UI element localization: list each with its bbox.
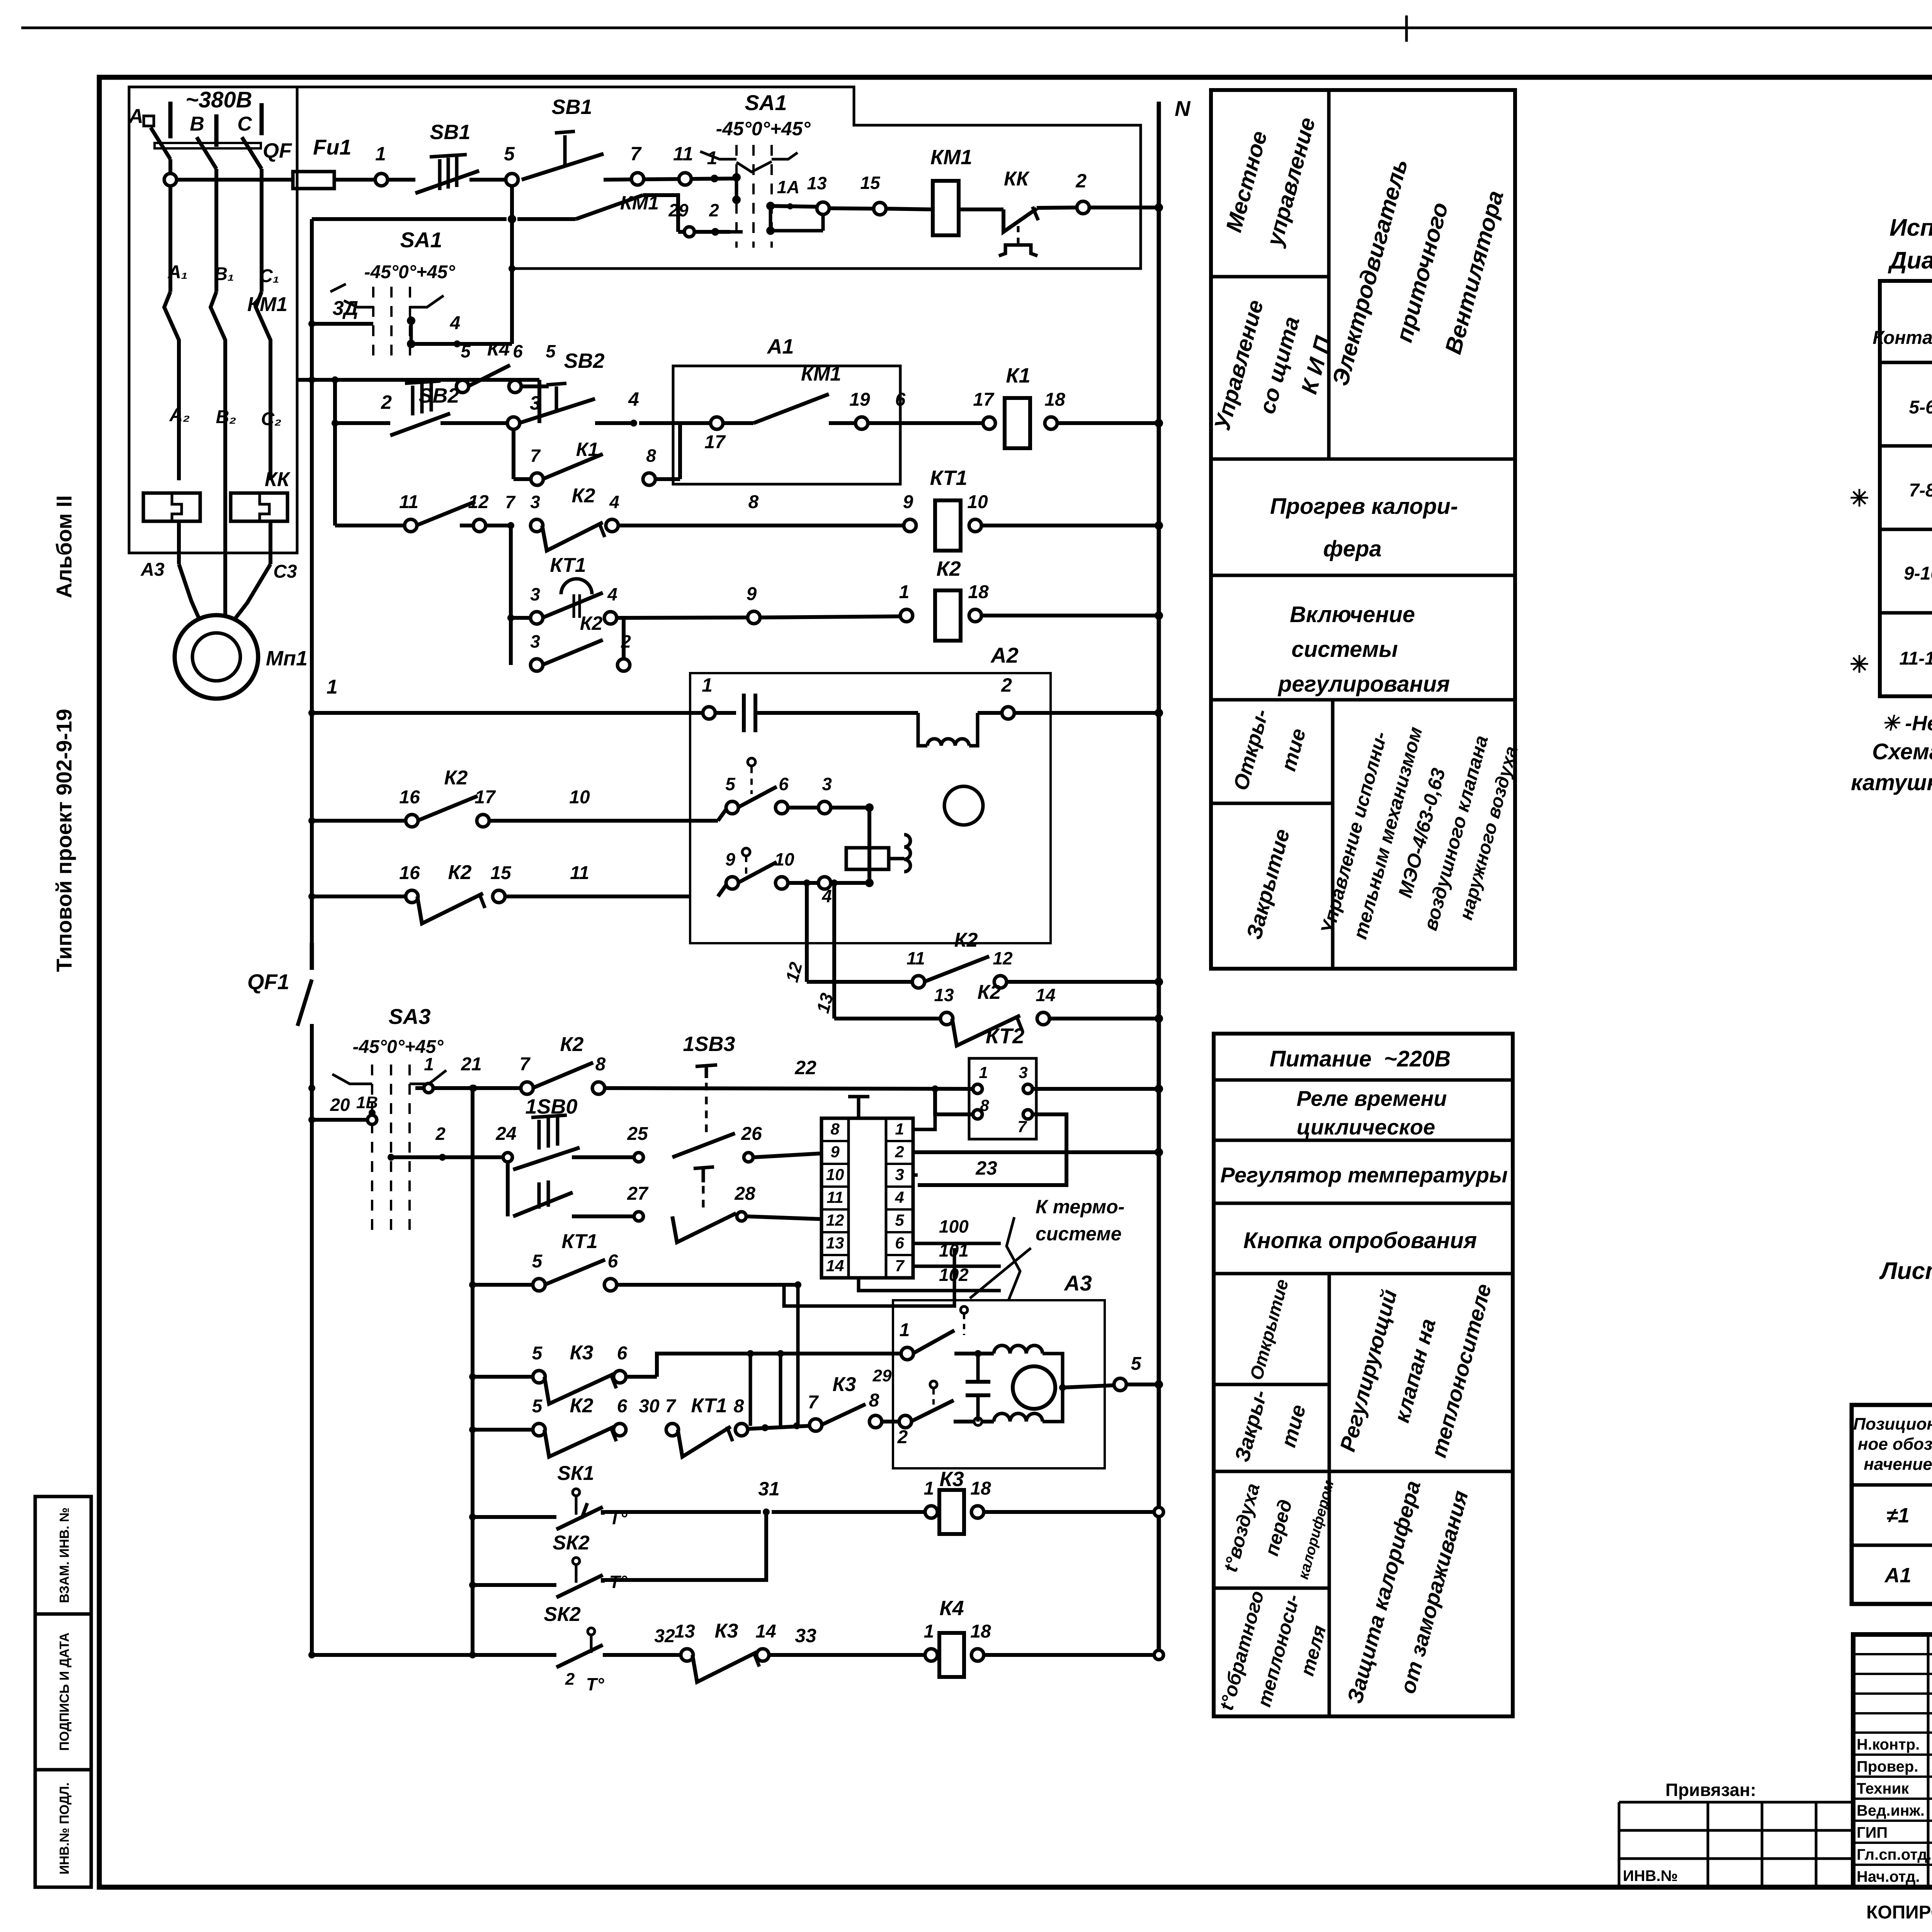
node 26 rungB2 (744, 1153, 753, 1162)
pushbutton SB2 break cap (405, 381, 440, 383)
control box A1 boundary (297, 87, 1141, 269)
terminal block body (821, 1118, 913, 1278)
svg-text:6: 6 (617, 1343, 628, 1364)
svg-text:К1: К1 (576, 439, 599, 460)
limit switch A3 arm1 (913, 1330, 954, 1354)
svg-text:4: 4 (607, 584, 617, 604)
wire rung6 to N (1014, 711, 1159, 715)
svg-text:22: 22 (794, 1057, 816, 1078)
svg-text:1: 1 (899, 582, 910, 602)
wire rung8 into A2 (504, 896, 718, 897)
wire rung8 b (504, 895, 690, 898)
svg-text:24: 24 (495, 1124, 516, 1144)
selector SA1 left dashed 1 (372, 287, 374, 357)
pushbutton SB2 break plunger (411, 386, 415, 415)
junction KT2 branch (932, 1085, 939, 1092)
relay coil K2 (935, 590, 961, 641)
pushbutton 1SB3 T (696, 1065, 717, 1066)
wire rungSK1 b (603, 1512, 761, 1515)
node 7 K1 (531, 473, 543, 485)
limit switch A3 circle2 (930, 1381, 937, 1388)
contact KT1 rungB5 tick (727, 1427, 733, 1441)
breaker QF1 arm (298, 980, 312, 1026)
svg-text:5: 5 (461, 341, 471, 361)
junction railB SK1 (469, 1514, 476, 1520)
svg-text:К2: К2 (936, 557, 961, 580)
svg-text:SА1: SА1 (745, 90, 787, 115)
selector SA3 dashed 3 (408, 1065, 411, 1233)
wire rungB5 step (766, 1427, 767, 1428)
wire node7 drop (517, 217, 576, 221)
svg-text:С: С (237, 113, 252, 135)
function divider col2 (1331, 700, 1335, 969)
terminal block T symbol (848, 1095, 869, 1099)
svg-text:QF1: QF1 (247, 969, 289, 994)
svg-text:SК2: SК2 (553, 1532, 590, 1554)
wire rung4 drop (509, 526, 513, 627)
svg-text:ное обоз-: ное обоз- (1858, 1435, 1932, 1454)
node 21 rungB1 (470, 1085, 477, 1092)
contact K3 13-14 break (692, 1652, 757, 1682)
relay coil K4 (939, 1633, 964, 1677)
svg-text:14: 14 (1036, 985, 1055, 1005)
junction rail 20 (308, 1116, 315, 1123)
wire aux to node29 (678, 230, 684, 234)
node 8 A3row (869, 1415, 882, 1428)
wire rung5b riser (622, 618, 626, 660)
svg-text:КМ1: КМ1 (247, 293, 287, 316)
node 24 rungB2 (503, 1153, 512, 1162)
svg-text:32: 32 (654, 1626, 675, 1646)
svg-text:33: 33 (795, 1625, 816, 1646)
pushbutton SB1 break lead (387, 178, 415, 182)
wire K4 right (520, 384, 539, 388)
node 7 row1 (631, 173, 644, 185)
dashed unit 1 boundary box (129, 87, 297, 553)
wire rung9 to N (1006, 980, 1159, 984)
wire rungB2 b (572, 1155, 633, 1159)
svg-text:1А: 1А (777, 177, 800, 197)
sheet top trim line (21, 27, 1932, 29)
pushbutton 1SB3 plunger (705, 1078, 708, 1132)
node 1 A3 (901, 1347, 913, 1360)
function divider col (1327, 90, 1331, 459)
svg-text:3: 3 (530, 631, 540, 651)
wire rung10 to N (1049, 1017, 1159, 1020)
KT2 pin7 circle (1023, 1110, 1032, 1119)
svg-text:20: 20 (330, 1095, 350, 1115)
pushbutton SB2 make arm (519, 399, 595, 423)
motor feeder B3 (223, 340, 227, 618)
contact K2 rungB5 break (544, 1427, 614, 1457)
svg-text:15: 15 (490, 863, 512, 883)
node 7 rung4 (507, 522, 514, 529)
node 2 rung5b (617, 659, 630, 671)
svg-text:1: 1 (979, 1063, 988, 1082)
svg-text:12: 12 (826, 1211, 844, 1229)
svg-text:системе: системе (1036, 1223, 1122, 1245)
svg-text:КТ2: КТ2 (986, 1024, 1024, 1048)
node 16 rung8 (406, 890, 418, 903)
wire rung4 to N (981, 524, 1159, 527)
wire SA1 left out (411, 342, 512, 346)
node 1 K4coil (925, 1649, 937, 1661)
svg-text:Регулятор температуры: Регулятор температуры (1220, 1163, 1508, 1187)
left stamp divider 2 (35, 1768, 91, 1772)
svg-text:Привязан:: Привязан: (1665, 1780, 1756, 1800)
bus tick phase B (214, 114, 219, 147)
svg-text:9: 9 (830, 1143, 840, 1161)
svg-text:1: 1 (924, 1478, 934, 1499)
junction railB top (469, 1085, 476, 1092)
svg-text:11: 11 (399, 492, 418, 512)
wire rung KM1 coil (769, 206, 772, 231)
breaker QF arm B (197, 137, 216, 169)
svg-text:2: 2 (1001, 674, 1012, 696)
junction N KT2 (1155, 1085, 1163, 1093)
thermal relay KK box (0, 0, 0, 0)
svg-text:1: 1 (375, 143, 386, 165)
svg-text:1: 1 (895, 1120, 904, 1138)
wire aux to SA1 bottom (509, 265, 515, 272)
actuator A2 box (690, 673, 1051, 943)
svg-text:К2: К2 (560, 1033, 584, 1056)
node 6 A2 (776, 801, 788, 814)
svg-text:А₁: А₁ (167, 262, 188, 282)
contact K3 5-6 tick (611, 1374, 616, 1388)
junction N rung4 (1155, 521, 1163, 530)
pushbutton SB2 make plunger (555, 386, 558, 413)
svg-text:6: 6 (513, 341, 523, 361)
left control rail net1 (310, 219, 314, 970)
function bottom row3 (1214, 1202, 1513, 1205)
selector SA1 left contact left (344, 301, 373, 307)
wire rung5 drop (509, 618, 513, 665)
node 1 A2 (703, 707, 715, 719)
node 15 (874, 202, 886, 215)
node 11 row1 (679, 173, 691, 185)
node 8 rungB5 (735, 1423, 748, 1436)
delay arc KT1 3-4 (561, 579, 592, 594)
node 18 K3coil (971, 1506, 984, 1518)
svg-text:19: 19 (849, 389, 870, 410)
svg-text:8: 8 (595, 1054, 606, 1075)
node 7 rungB5 (666, 1423, 679, 1436)
svg-text:✳ -Не используются: ✳ -Не используются (1882, 712, 1932, 735)
wire rung3 e (867, 421, 989, 425)
wire rung5 to N (981, 614, 1159, 617)
svg-text:5: 5 (725, 774, 736, 794)
wire rungB1 a (415, 1086, 522, 1090)
node 3 rung4 (531, 519, 543, 532)
svg-text:8: 8 (980, 1096, 989, 1114)
thermal contact SK2 arm (556, 1575, 603, 1597)
svg-text:регулирования: регулирования (1277, 672, 1450, 697)
pushbutton SB1 plunger bars (438, 159, 442, 190)
svg-text:ВЗАМ. ИНВ. №: ВЗАМ. ИНВ. № (57, 1507, 72, 1603)
node 25 rungB2 (634, 1153, 643, 1162)
contact diagram header row line (1880, 361, 1932, 364)
KT2 pin1 circle (973, 1084, 982, 1094)
svg-text:6: 6 (895, 1234, 904, 1252)
svg-text:2: 2 (1075, 170, 1087, 192)
node 18 rung5 (969, 609, 981, 622)
terminal block bracket (784, 1248, 954, 1306)
wire node2 to N (1088, 206, 1159, 209)
svg-text:SВ1: SВ1 (430, 121, 470, 144)
left stamp column box (35, 1497, 91, 1887)
node 1A (828, 208, 874, 209)
pushbutton 1SB3 break arm (672, 1213, 736, 1242)
svg-text:Прогрев калори-: Прогрев калори- (1270, 494, 1458, 519)
node 3 A2 (818, 801, 831, 814)
pushbutton 1SB3 break plunger (702, 1171, 705, 1207)
wire A2 relay to coil (889, 857, 904, 861)
wire A2 relay drop (867, 808, 871, 883)
wire block pin2 to N (913, 1150, 1159, 1154)
svg-text:100: 100 (939, 1216, 969, 1236)
svg-text:SА3: SА3 (389, 1004, 431, 1029)
svg-text:7: 7 (665, 1396, 677, 1417)
selector SA3 contact left (332, 1074, 372, 1084)
wire A3 motor right (1043, 1354, 1063, 1422)
wire A2 6-3 (787, 806, 819, 810)
svg-text:26: 26 (741, 1124, 762, 1144)
svg-text:Типовой проект 902-9-19: Типовой проект 902-9-19 (52, 709, 76, 972)
svg-text:25: 25 (627, 1124, 648, 1144)
title block name rows (1853, 1731, 1932, 1734)
svg-text:Н.контр.: Н.контр. (1857, 1736, 1920, 1753)
selector SA1 left dashed 2 (390, 287, 393, 357)
contactor KM1 selfhold contact (753, 394, 829, 423)
svg-text:29: 29 (872, 1366, 892, 1385)
svg-text:ИНВ.№: ИНВ.№ (1623, 1867, 1678, 1884)
node 31 (763, 1509, 770, 1515)
wire KK pole A down (177, 521, 181, 564)
svg-text:✳: ✳ (1850, 651, 1869, 677)
svg-text:31: 31 (758, 1478, 780, 1500)
selector SA1 left wire box left (297, 378, 539, 382)
junction rail rung7 (308, 817, 315, 824)
node 28 (737, 1212, 746, 1221)
wire A3 out 5 (1063, 1385, 1115, 1388)
svg-text:КОПИРОВАЛ: ЛОГИНОВА: КОПИРОВАЛ: ЛОГИНОВА (1866, 1902, 1932, 1923)
svg-text:А3: А3 (1063, 1271, 1092, 1295)
wire rung6 c (978, 711, 1003, 715)
node 17 rung3 (711, 417, 723, 429)
capacitor C A2 lead (714, 711, 736, 715)
motor A3 inductor bottom (994, 1413, 1043, 1422)
contact K2 3-4 tick (599, 522, 605, 537)
wire rungK4 a (312, 1653, 556, 1657)
phase A drop to KM1 (168, 185, 172, 292)
node 5 row1 (506, 173, 518, 186)
node 19 rung3 (855, 417, 868, 429)
svg-text:SК2: SК2 (544, 1603, 581, 1626)
node 1 K3coil (925, 1506, 937, 1518)
contact K2 3-4 break (542, 522, 603, 551)
thermo arrow line (970, 1248, 1031, 1298)
svg-text:3: 3 (530, 584, 540, 604)
thermal contact SK2 tick (575, 1565, 578, 1583)
wire KK to node 2 (1037, 207, 1078, 208)
node 4 rung3 (630, 420, 637, 427)
svg-text:4: 4 (609, 492, 619, 512)
svg-text:К3: К3 (570, 1342, 594, 1364)
svg-text:К2: К2 (570, 1395, 594, 1417)
delay bars KT1 (573, 594, 575, 618)
wire KT2 8 branch (935, 1089, 973, 1114)
svg-text:Т°: Т° (586, 1674, 604, 1694)
svg-text:12: 12 (468, 492, 489, 512)
svg-text:1В: 1В (356, 1093, 378, 1112)
svg-text:К2: К2 (954, 929, 978, 951)
selector SA1 junction dot upper (732, 173, 741, 182)
svg-text:10: 10 (774, 849, 794, 869)
svg-text:16: 16 (399, 863, 420, 883)
node 7 A3row (810, 1419, 822, 1431)
svg-text:3: 3 (822, 774, 832, 794)
svg-text:4: 4 (450, 313, 461, 333)
wire rung3 c (595, 421, 634, 425)
function table bottom group box (1214, 1034, 1513, 1716)
svg-text:5-6: 5-6 (1909, 397, 1932, 418)
breaker QF arm A (151, 128, 170, 159)
node 5 K4 (456, 380, 469, 393)
thermal contact SK2b tick (590, 1635, 593, 1653)
svg-text:6: 6 (779, 774, 789, 794)
function bottom row2 (1214, 1139, 1513, 1142)
svg-text:КТ1: КТ1 (930, 466, 968, 490)
svg-text:1SВ3: 1SВ3 (683, 1032, 735, 1056)
wire block pin1 up (913, 1109, 935, 1129)
node 1 rungB1 (424, 1083, 433, 1093)
svg-text:14: 14 (755, 1621, 776, 1642)
contact K2 13-14 break (952, 1015, 1020, 1046)
svg-text:фера: фера (1323, 536, 1381, 561)
privyazan table rows (1619, 1801, 1853, 1804)
capacitor C A2 plates (742, 694, 746, 732)
svg-text:9: 9 (725, 849, 735, 869)
svg-text:В: В (190, 113, 204, 135)
wire A3 inner bottom (954, 1420, 994, 1423)
wire rungB3 b (616, 1283, 798, 1287)
svg-text:~380В: ~380В (185, 87, 252, 112)
svg-text:28: 28 (734, 1184, 755, 1204)
node 2 A2 (1002, 707, 1014, 719)
svg-text:3: 3 (1019, 1063, 1027, 1082)
wire K1 selfhold riser (678, 429, 682, 479)
wire K3coil to N (983, 1510, 1159, 1514)
wire rung7 b (488, 819, 718, 823)
svg-text:SВ2: SВ2 (418, 384, 459, 407)
wire K1 selfhold b (603, 479, 644, 480)
junction railB rungB3 (469, 1281, 476, 1288)
pushbutton SB1 plunger cap (430, 155, 467, 157)
svg-text:2: 2 (381, 391, 392, 413)
wire x2110 riser (766, 1427, 767, 1428)
svg-text:9: 9 (903, 492, 913, 512)
node 8 rungB1 (592, 1082, 605, 1094)
node 2 rungB2 (439, 1154, 446, 1161)
svg-text:17: 17 (704, 432, 726, 452)
wire rung3 start (335, 421, 390, 425)
wire thermo 102 (885, 1289, 1001, 1293)
node 6 K4 (509, 380, 521, 393)
svg-text:5: 5 (546, 341, 556, 361)
svg-text:7: 7 (520, 1054, 531, 1075)
node 13 rung10 (940, 1012, 953, 1025)
svg-text:Контакты: Контакты (1872, 328, 1932, 348)
contact K2 11-12 (924, 956, 989, 982)
wire rungB4 a (473, 1375, 534, 1379)
contact K1 11-12 (416, 502, 475, 526)
node 10 rung4 (969, 519, 981, 532)
svg-text:С₁: С₁ (259, 266, 279, 286)
wire rung5 b (624, 617, 748, 618)
wire K4coil to N (983, 1653, 1159, 1657)
contactor coil KM1 (933, 181, 959, 235)
svg-text:7: 7 (505, 492, 516, 512)
pushbutton SB1 make arm (522, 154, 604, 180)
svg-text:11: 11 (570, 863, 589, 883)
svg-text:8: 8 (734, 1396, 744, 1417)
node 1 rung5 (900, 609, 913, 622)
svg-text:КК: КК (1004, 168, 1030, 190)
wire rungK4 c (768, 1653, 926, 1657)
svg-text:16: 16 (399, 787, 420, 808)
bus tick phase A (168, 102, 173, 138)
limit switch A2 9-10 link (745, 856, 747, 877)
wire node3 drop (512, 429, 515, 479)
svg-text:N: N (1175, 96, 1191, 121)
node 16 rung7 (406, 815, 418, 827)
svg-text:А1: А1 (1884, 1564, 1911, 1587)
selector SA1 left contact right (410, 296, 444, 307)
svg-text:3: 3 (530, 492, 540, 512)
selector SA1 top dashed line 3 (770, 145, 773, 248)
svg-text:SА1: SА1 (400, 228, 442, 252)
svg-text:Схема выводов контактов и: Схема выводов контактов и (1872, 739, 1932, 764)
terminal block right cells (886, 1118, 913, 1278)
thermal element KK notch A (172, 493, 182, 521)
neutral rail N (1157, 102, 1161, 1655)
svg-text:5: 5 (532, 1396, 543, 1417)
wire rung5 a (616, 616, 624, 620)
fold mark tick top center (1405, 15, 1408, 42)
wire rungB4 b (625, 1375, 657, 1379)
svg-text:27: 27 (627, 1184, 649, 1204)
relay coil K3 (939, 1490, 964, 1534)
wire rail row1 segment b (334, 178, 415, 182)
thermal contact SK1 arm (556, 1507, 603, 1529)
SK2 stem circle (573, 1558, 580, 1565)
function bottom row5L (1214, 1383, 1329, 1386)
wire rungB5 b (747, 1426, 810, 1429)
limit switch A2 5-6 link (750, 767, 753, 794)
svg-text:≠1: ≠1 (1886, 1504, 1910, 1527)
motor A3 circle (1013, 1366, 1055, 1409)
node 2 A3 (899, 1415, 912, 1428)
wire KT2 3 to N (1032, 1087, 1159, 1091)
svg-text:К4: К4 (487, 338, 510, 360)
node 5 A2 (726, 801, 738, 814)
contact K2 7-8 b1 (532, 1063, 593, 1088)
wire rung3 to N (1056, 421, 1159, 425)
svg-text:К4: К4 (939, 1597, 964, 1620)
wire rungB1 b (604, 1088, 974, 1089)
lamp A2 circle (944, 786, 983, 825)
